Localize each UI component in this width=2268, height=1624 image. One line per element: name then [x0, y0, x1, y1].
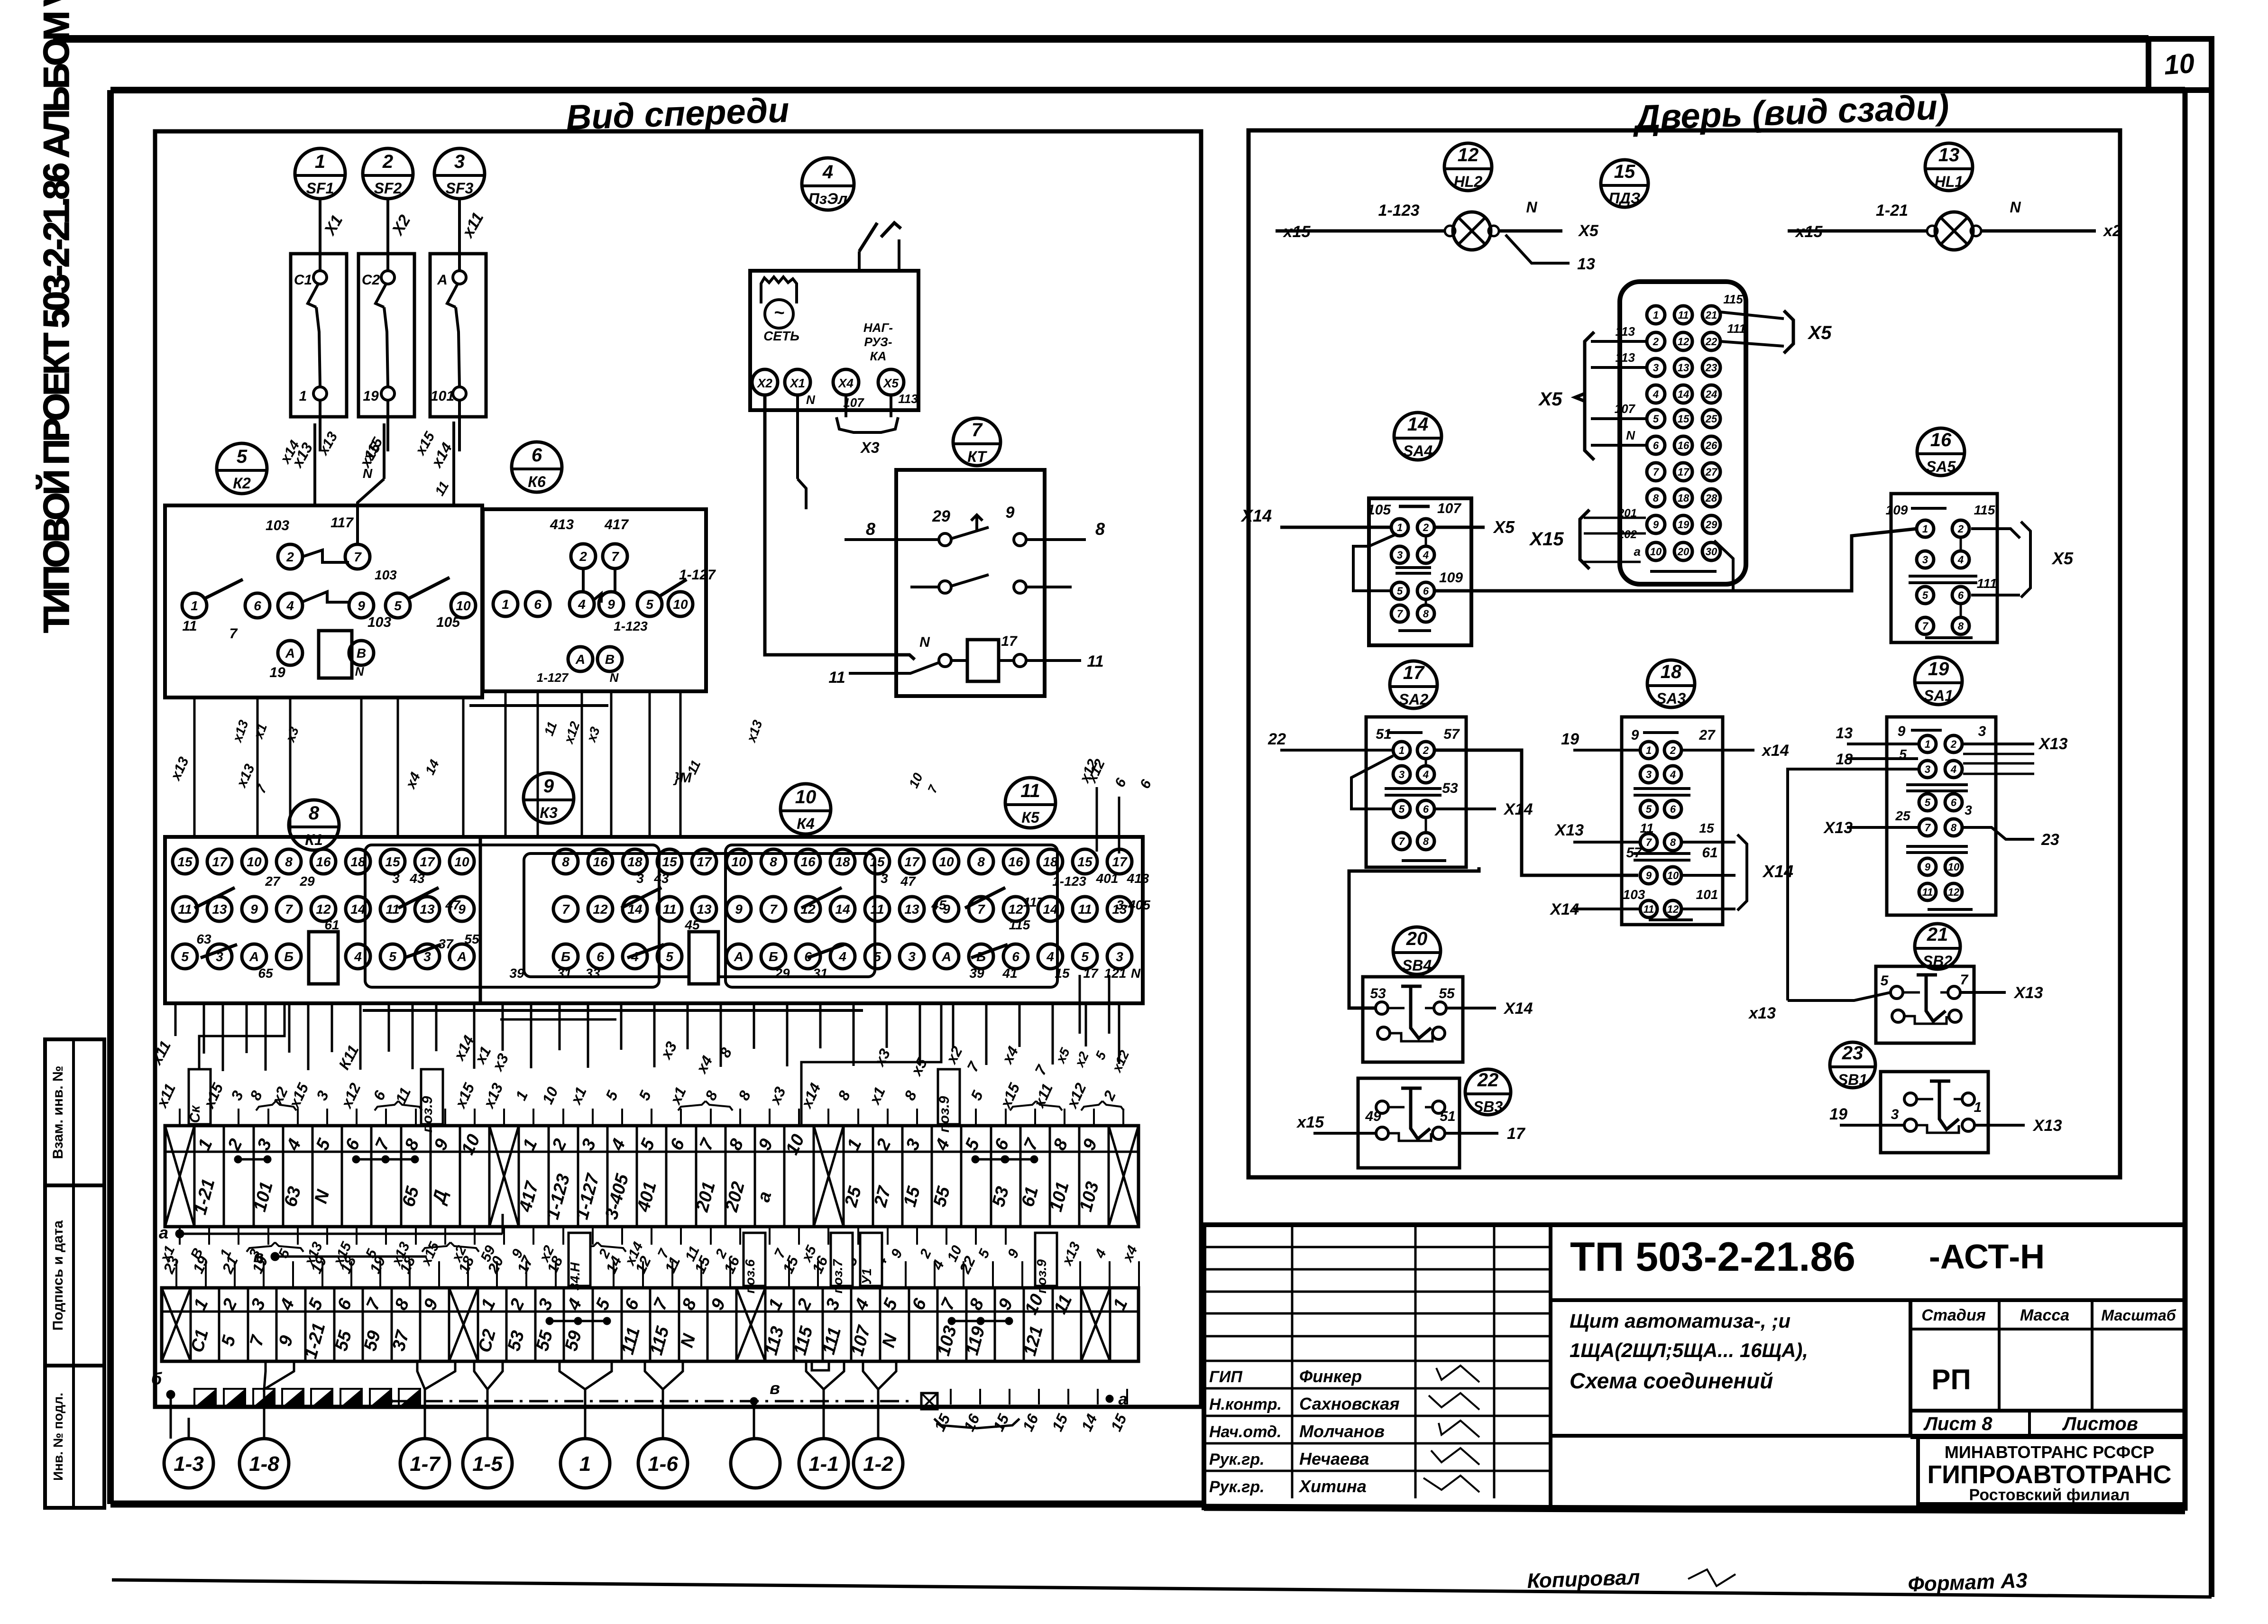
svg-text:11: 11: [1922, 886, 1933, 898]
svg-text:1: 1: [1974, 1100, 1982, 1115]
svg-text:К4: К4: [797, 815, 815, 832]
svg-text:Х13: Х13: [2032, 1117, 2062, 1135]
cable tag 1-3: [164, 1418, 213, 1488]
svg-text:N: N: [919, 634, 930, 650]
svg-text:1-123: 1-123: [614, 619, 648, 633]
svg-text:13: 13: [1678, 362, 1689, 374]
svg-text:К3: К3: [540, 804, 558, 821]
svg-text:2: 2: [286, 550, 294, 564]
svg-text:115: 115: [1974, 503, 1995, 517]
svg-text:39: 39: [509, 966, 524, 981]
svg-text:НАГ-: НАГ-: [863, 321, 893, 335]
svg-text:1-5: 1-5: [472, 1452, 503, 1476]
svg-text:18: 18: [1043, 854, 1058, 869]
svg-text:Х14: Х14: [1503, 800, 1533, 818]
svg-text:29: 29: [1705, 519, 1717, 531]
svg-text:25: 25: [1705, 413, 1717, 425]
svg-text:х13: х13: [1748, 1004, 1776, 1022]
svg-text:2: 2: [382, 151, 393, 172]
svg-text:5: 5: [1646, 803, 1652, 815]
breaker SF2 X-ref label: [388, 212, 414, 239]
svg-text:3: 3: [636, 871, 644, 886]
svg-text:7: 7: [354, 550, 362, 564]
svg-text:1-127: 1-127: [679, 567, 716, 583]
svg-text:57: 57: [1443, 726, 1460, 742]
svg-text:7: 7: [1653, 466, 1660, 478]
svg-text:29: 29: [774, 966, 790, 981]
svg-text:1-7: 1-7: [410, 1452, 441, 1476]
stage table: [1910, 1300, 2185, 1436]
svg-text:Х5: Х5: [1578, 222, 1599, 240]
svg-text:А: А: [285, 646, 295, 661]
svg-text:В: В: [357, 646, 366, 661]
svg-text:Подпись и дата: Подпись и дата: [50, 1220, 66, 1330]
wires under K2 box: [194, 697, 463, 837]
svg-text:7: 7: [285, 902, 293, 917]
breaker SF2 position circle: [363, 148, 413, 199]
svg-text:в: в: [770, 1378, 780, 1398]
svg-text:7: 7: [972, 420, 983, 440]
svg-text:12: 12: [1667, 903, 1679, 915]
svg-text:5: 5: [873, 949, 881, 964]
svg-text:14: 14: [1043, 902, 1058, 917]
svg-text:6: 6: [1012, 949, 1019, 964]
svg-text:1: 1: [502, 597, 509, 612]
labels below strip1: [160, 1227, 1006, 1276]
title block organization: [1918, 1437, 2185, 1504]
svg-text:13: 13: [420, 902, 435, 917]
svg-text:SF3: SF3: [446, 180, 474, 197]
button SB2: [1748, 966, 2043, 1043]
svg-text:43: 43: [409, 871, 425, 886]
svg-text:109: 109: [1886, 503, 1908, 517]
svg-text:SA3: SA3: [1656, 690, 1686, 707]
wires under K6 box: [469, 691, 765, 837]
svg-text:4: 4: [578, 597, 586, 612]
svg-text:6: 6: [1423, 585, 1429, 597]
switch SA5: [1886, 494, 2074, 642]
svg-text:N: N: [355, 664, 365, 679]
svg-text:53: 53: [1442, 780, 1458, 796]
svg-text:SF2: SF2: [374, 180, 402, 197]
svg-text:16: 16: [1008, 854, 1023, 869]
svg-text:13: 13: [212, 902, 227, 917]
svg-text:8: 8: [1423, 835, 1429, 847]
svg-text:-АСТ-Н: -АСТ-Н: [1929, 1238, 2045, 1276]
svg-text:13: 13: [904, 902, 919, 917]
svg-text:Х13: Х13: [2038, 735, 2068, 753]
svg-text:401: 401: [1096, 871, 1119, 886]
svg-text:N: N: [1131, 966, 1141, 981]
svg-text:Масштаб: Масштаб: [2101, 1307, 2176, 1324]
svg-text:16: 16: [1930, 430, 1952, 450]
svg-text:Щит автоматиза-, ;и: Щит автоматиза-, ;и: [1570, 1310, 1791, 1332]
switch SA2 position circle 17: [1390, 661, 1437, 708]
svg-text:103: 103: [367, 615, 391, 630]
svg-text:4: 4: [286, 598, 294, 613]
svg-text:19: 19: [269, 665, 285, 680]
svg-text:10: 10: [1948, 861, 1960, 873]
svg-text:Х14: Х14: [1503, 1000, 1533, 1018]
svg-text:18: 18: [835, 854, 850, 869]
svg-text:413: 413: [550, 517, 574, 532]
breaker SF3 X-ref label: [458, 210, 487, 242]
svg-text:1-1: 1-1: [808, 1452, 839, 1476]
svg-text:11: 11: [828, 669, 845, 687]
svg-text:15: 15: [1077, 854, 1093, 869]
svg-text:18: 18: [350, 854, 366, 869]
right view box: [1249, 130, 2120, 1177]
svg-text:9: 9: [250, 902, 258, 917]
svg-text:1-6: 1-6: [648, 1452, 678, 1476]
svg-text:8: 8: [1423, 608, 1429, 620]
wires to strip1: [175, 1003, 1119, 1126]
svg-text:5: 5: [1397, 585, 1403, 597]
indicator position circle 4: [802, 158, 854, 210]
svg-text:1: 1: [1925, 738, 1930, 750]
cable tag 1-7: [400, 1418, 450, 1488]
svg-text:Х14: Х14: [1240, 506, 1272, 525]
svg-text:7: 7: [1397, 608, 1404, 620]
svg-text:17: 17: [1112, 854, 1128, 869]
svg-text:29: 29: [299, 874, 315, 889]
lamp HL1: [1788, 199, 2121, 250]
svg-text:12: 12: [316, 902, 331, 917]
svg-text:Х14: Х14: [1550, 900, 1579, 918]
title block list row: [1910, 1411, 2185, 1437]
breaker SF2 wire label: [356, 439, 384, 471]
svg-text:Ростовский филиал: Ростовский филиал: [1969, 1486, 2130, 1504]
lamp HL2 position circle 12: [1444, 143, 1492, 191]
svg-text:SA1: SA1: [1924, 687, 1953, 704]
labels above strip1: [153, 1069, 1124, 1132]
svg-text:103: 103: [266, 518, 289, 533]
svg-text:27: 27: [1699, 727, 1716, 743]
title block project name box: [1551, 1300, 1910, 1436]
extra wires right portion: [1053, 757, 1132, 1075]
strip1 jumpers: [234, 1156, 1038, 1163]
svg-text:37: 37: [438, 936, 454, 951]
svg-text:19: 19: [1678, 519, 1690, 531]
svg-text:14: 14: [835, 902, 850, 917]
svg-text:12: 12: [1458, 145, 1479, 165]
svg-text:11: 11: [1078, 902, 1092, 917]
svg-text:24: 24: [1705, 388, 1717, 400]
svg-text:4: 4: [822, 162, 833, 183]
svg-text:5: 5: [237, 446, 248, 467]
svg-text:7: 7: [1925, 822, 1931, 834]
svg-text:а: а: [159, 1223, 168, 1242]
title block doc number: [1570, 1234, 2045, 1280]
cable tag 1-6: [638, 1418, 688, 1488]
left view box: [155, 131, 1201, 1407]
svg-text:12: 12: [593, 902, 608, 917]
contact field inner box K3: [365, 845, 659, 987]
svg-text:103: 103: [375, 568, 397, 582]
svg-text:Рук.гр.: Рук.гр.: [1209, 1450, 1265, 1468]
svg-text:23: 23: [1705, 362, 1717, 374]
svg-text:7: 7: [770, 902, 778, 917]
svg-text:а: а: [1119, 1390, 1128, 1408]
contact field labels: [196, 871, 1150, 981]
svg-text:18: 18: [1836, 751, 1853, 768]
connector 15: [1620, 282, 1746, 591]
button SB4: [1363, 977, 1533, 1062]
cable tag 1-8: [239, 1418, 289, 1488]
dash-dot wire v: [385, 1378, 1127, 1409]
svg-text:17: 17: [420, 854, 435, 869]
svg-text:ТИПОВОЙ ПРОЕКТ 503-2-21.86 АЛЬ: ТИПОВОЙ ПРОЕКТ 503-2-21.86 АЛЬБОМ V: [36, 0, 77, 633]
svg-text:~: ~: [774, 303, 784, 323]
svg-text:105: 105: [436, 615, 460, 630]
svg-text:8: 8: [977, 854, 985, 869]
terminal strip 2: [162, 1288, 1139, 1361]
svg-text:1: 1: [315, 151, 325, 172]
svg-text:27: 27: [1705, 466, 1718, 478]
relay K6 position circle 6: [512, 442, 562, 492]
svg-text:А: А: [575, 652, 585, 667]
cable tag 1: [560, 1418, 610, 1488]
svg-text:ГИПРОАВТОТРАНС: ГИПРОАВТОТРАНС: [1927, 1460, 2171, 1489]
svg-text:45: 45: [931, 898, 946, 912]
svg-text:А: А: [249, 949, 259, 964]
svg-text:8: 8: [770, 854, 777, 869]
svg-text:SF1: SF1: [306, 180, 334, 197]
breaker SF1 X-ref label: [321, 212, 347, 239]
svg-text:HL2: HL2: [1454, 173, 1483, 190]
svg-text:113: 113: [898, 392, 918, 406]
node a wire: [159, 1214, 503, 1242]
strip2 hatch: [194, 1389, 420, 1407]
svg-text:9: 9: [607, 597, 615, 612]
connector position circle 15: [1601, 160, 1648, 207]
svg-text:Финкер: Финкер: [1299, 1367, 1362, 1386]
svg-text:57: 57: [1626, 845, 1643, 861]
contact field circles: [173, 849, 1132, 984]
svg-text:29: 29: [932, 507, 950, 525]
svg-text:У1: У1: [859, 1268, 874, 1285]
svg-text:Х5: Х5: [1493, 517, 1515, 537]
svg-text:51: 51: [1376, 726, 1391, 742]
switch SA4: [1240, 498, 1515, 645]
svg-text:HL1: HL1: [1935, 173, 1963, 190]
svg-text:103: 103: [1623, 887, 1645, 902]
contact field inner box K4: [524, 853, 875, 977]
svg-text:8: 8: [1095, 519, 1105, 539]
svg-text:5: 5: [1922, 589, 1928, 601]
svg-text:РУЗ-: РУЗ-: [864, 335, 892, 349]
svg-text:Х4: Х4: [837, 376, 854, 390]
svg-text:Рук.гр.: Рук.гр.: [1209, 1478, 1265, 1496]
svg-text:1: 1: [1922, 523, 1928, 535]
svg-text:МИНАВТОТРАНС РСФСР: МИНАВТОТРАНС РСФСР: [1945, 1442, 2154, 1462]
svg-text:1-123: 1-123: [1378, 202, 1420, 220]
svg-text:10: 10: [247, 854, 262, 869]
wire SA4 to SA5: [1434, 529, 1917, 591]
svg-text:7: 7: [611, 549, 619, 564]
svg-text:12: 12: [1678, 336, 1690, 348]
svg-text:1-8: 1-8: [249, 1452, 279, 1476]
relay K2 position circle 5: [217, 443, 267, 494]
title block frame: [1204, 1225, 2185, 1508]
svg-text:9: 9: [1631, 727, 1639, 743]
svg-text:Нач.отд.: Нач.отд.: [1209, 1423, 1281, 1441]
svg-text:14: 14: [350, 902, 366, 917]
svg-text:9: 9: [1006, 504, 1015, 522]
svg-text:20: 20: [1677, 546, 1690, 558]
svg-text:10: 10: [1650, 546, 1662, 558]
svg-text:13: 13: [697, 902, 712, 917]
svg-text:1: 1: [1399, 744, 1405, 756]
svg-text:9: 9: [1925, 861, 1931, 873]
labels near K circles: [167, 754, 1155, 796]
svg-text:8: 8: [1653, 492, 1659, 504]
node v wire: [253, 1247, 427, 1266]
svg-text:16: 16: [316, 854, 331, 869]
svg-text:10: 10: [2163, 48, 2195, 81]
relay К4 position circle: [780, 784, 831, 834]
svg-text:7: 7: [1646, 836, 1653, 848]
svg-text:23: 23: [1842, 1043, 1864, 1064]
svg-text:11: 11: [1678, 309, 1689, 321]
svg-text:16: 16: [1678, 440, 1690, 451]
svg-text:55: 55: [464, 932, 479, 946]
svg-text:8: 8: [1951, 822, 1957, 834]
svg-text:23: 23: [2041, 831, 2059, 849]
svg-text:SB3: SB3: [1473, 1098, 1503, 1115]
svg-text:107: 107: [1615, 402, 1636, 416]
svg-text:Хитина: Хитина: [1298, 1477, 1367, 1496]
svg-text:3: 3: [881, 871, 888, 886]
svg-text:15: 15: [662, 854, 677, 869]
svg-text:Формат А3: Формат А3: [1908, 1569, 2028, 1596]
svg-text:Х5: Х5: [1538, 389, 1563, 410]
svg-text:1-3: 1-3: [174, 1452, 204, 1476]
svg-text:5: 5: [1081, 949, 1089, 964]
contact field divider: [479, 837, 482, 1003]
svg-text:4: 4: [1653, 388, 1659, 400]
svg-text:3: 3: [1653, 362, 1659, 374]
note kopiroval: [1527, 1566, 1735, 1593]
svg-text:3: 3: [908, 949, 916, 964]
svg-text:а: а: [1634, 544, 1641, 559]
svg-text:Копировал: Копировал: [1527, 1566, 1641, 1593]
svg-text:45: 45: [684, 918, 700, 932]
svg-text:Стадия: Стадия: [1921, 1306, 1986, 1324]
svg-text:10: 10: [795, 787, 817, 807]
button SB4 position circle 20: [1393, 927, 1441, 974]
relay KT position circle 7: [953, 418, 1001, 466]
cable tag 1-5: [463, 1418, 512, 1488]
svg-text:3: 3: [1399, 769, 1405, 780]
svg-text:ПзЭл: ПзЭл: [808, 190, 847, 207]
svg-text:26: 26: [1705, 440, 1717, 451]
svg-text:22: 22: [1477, 1070, 1499, 1091]
svg-text:1: 1: [1397, 522, 1403, 533]
wire SB2 left: [1788, 769, 1918, 1000]
svg-text:3: 3: [1925, 763, 1930, 775]
title Дверь (вид сзади): [1632, 87, 1950, 137]
svg-text:25: 25: [1895, 808, 1910, 823]
svg-text:6: 6: [534, 597, 542, 612]
relay K6 box: [483, 509, 716, 691]
svg-text:6: 6: [597, 949, 604, 964]
svg-text:28: 28: [1705, 492, 1717, 504]
svg-text:8: 8: [866, 519, 875, 539]
svg-text:КТ: КТ: [967, 448, 987, 465]
svg-text:х2: х2: [2103, 222, 2121, 240]
svg-text:12: 12: [1008, 902, 1023, 917]
svg-text:3: 3: [1965, 803, 1972, 817]
svg-text:4: 4: [838, 949, 846, 964]
svg-text:18: 18: [627, 854, 643, 869]
svg-text:2: 2: [1423, 744, 1429, 756]
labels above strip2: [157, 1233, 1141, 1294]
svg-text:7: 7: [562, 902, 570, 917]
svg-text:11: 11: [1087, 652, 1103, 670]
svg-text:10: 10: [731, 854, 746, 869]
svg-text:8: 8: [285, 854, 293, 869]
contact field outer box: [165, 837, 1143, 1003]
svg-text:К5: К5: [1021, 809, 1040, 826]
svg-text:ТП 503-2-21.86: ТП 503-2-21.86: [1570, 1234, 1855, 1280]
note format: [1908, 1569, 2028, 1596]
svg-text:5: 5: [394, 598, 402, 613]
svg-text:6: 6: [254, 598, 261, 613]
svg-text:х15: х15: [1795, 223, 1823, 241]
svg-text:7: 7: [230, 626, 238, 642]
svg-text:61: 61: [324, 918, 339, 932]
svg-text:5: 5: [1653, 413, 1659, 425]
svg-text:2: 2: [1423, 522, 1429, 533]
svg-text:3: 3: [1397, 549, 1403, 561]
svg-text:Х13: Х13: [2013, 984, 2043, 1002]
svg-text:16: 16: [593, 854, 608, 869]
terminal strip 1: [165, 1126, 1139, 1227]
svg-text:13: 13: [1577, 255, 1595, 273]
strip2 jumpers: [546, 1317, 1013, 1325]
svg-text:3-405: 3-405: [1116, 898, 1150, 912]
svg-text:Х5: Х5: [2051, 549, 2074, 568]
svg-text:11: 11: [182, 618, 197, 634]
lamp HL1 position circle 13: [1925, 143, 1973, 191]
relay KT (pos 7): [828, 470, 1105, 696]
svg-text:7: 7: [1399, 835, 1405, 847]
svg-text:15: 15: [870, 854, 885, 869]
svg-text:15: 15: [1614, 161, 1635, 182]
svg-text:Х1: Х1: [789, 376, 805, 390]
svg-text:413: 413: [1127, 871, 1149, 886]
strip2 funnels: [264, 1361, 896, 1439]
svg-text:Сахновская: Сахновская: [1299, 1394, 1399, 1413]
svg-text:6: 6: [1670, 803, 1676, 815]
svg-text:ГИП: ГИП: [1209, 1368, 1243, 1386]
svg-text:117: 117: [331, 515, 354, 531]
wire SA2 to SA3: [1435, 750, 1638, 875]
svg-text:31: 31: [813, 966, 827, 981]
element 4 X3 bracket: [836, 395, 898, 456]
sheet bottom border: [112, 1580, 2212, 1597]
svg-text:4: 4: [1046, 949, 1054, 964]
svg-text:10: 10: [673, 597, 688, 612]
svg-text:Х13: Х13: [1823, 819, 1853, 837]
svg-text:17: 17: [697, 854, 712, 869]
svg-text:1ЩА(2ЩЛ;5ЩА... 16ЩА),: 1ЩА(2ЩЛ;5ЩА... 16ЩА),: [1570, 1339, 1808, 1361]
svg-text:6: 6: [1958, 589, 1964, 601]
svg-text:5: 5: [1399, 803, 1405, 815]
svg-text:111: 111: [1727, 321, 1746, 336]
svg-text:1-127: 1-127: [537, 670, 569, 685]
